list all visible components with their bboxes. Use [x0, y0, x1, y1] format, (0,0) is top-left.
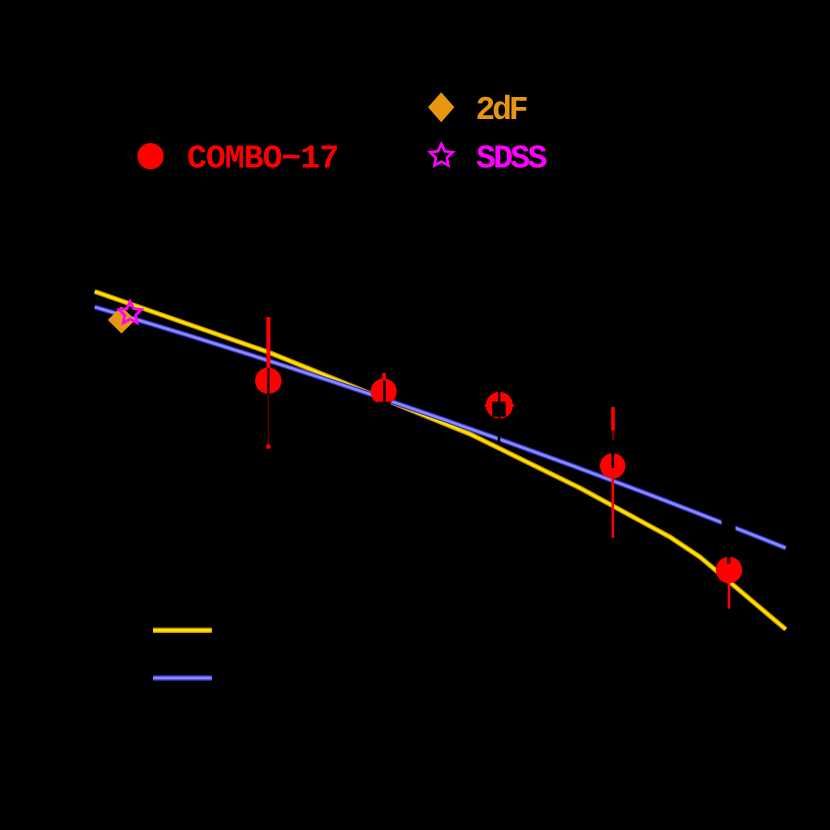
svg-text:SDSS: SDSS: [476, 141, 547, 178]
svg-text:2dF: 2dF: [476, 92, 527, 129]
svg-text:COMBO−17: COMBO−17: [187, 141, 338, 178]
